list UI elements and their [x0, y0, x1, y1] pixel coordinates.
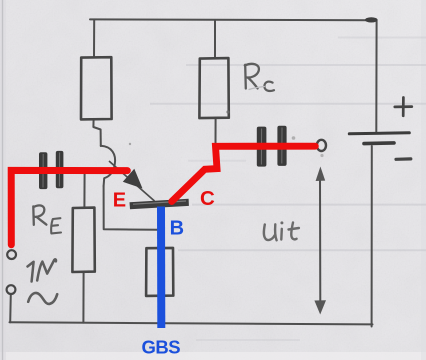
svg-text:E: E	[113, 189, 126, 211]
svg-text:GBS: GBS	[142, 337, 181, 358]
svg-text:B: B	[170, 218, 184, 240]
svg-text:C: C	[200, 187, 215, 210]
